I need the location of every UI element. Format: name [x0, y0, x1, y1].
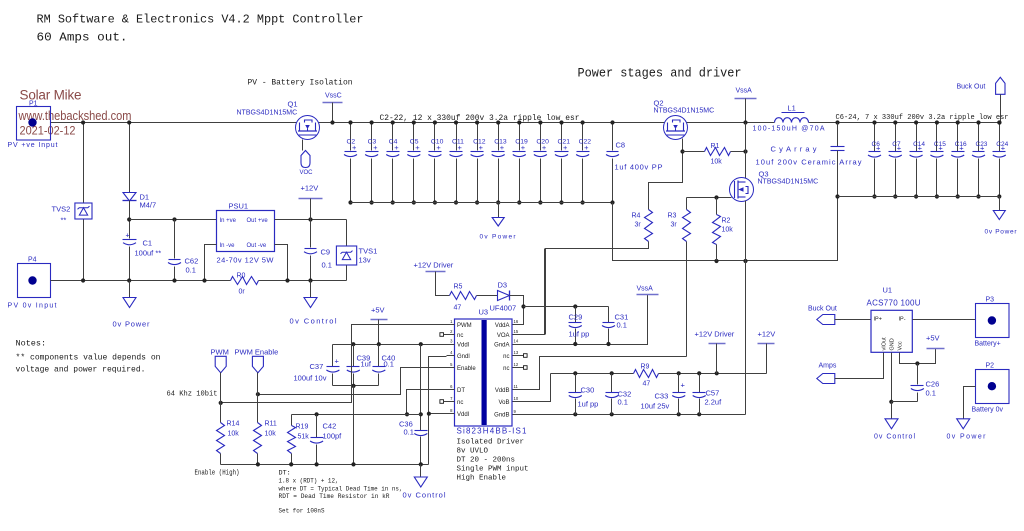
svg-text:PV 0v Input: PV 0v Input — [8, 303, 57, 310]
svg-text:** components value depends on: ** components value depends on — [16, 353, 161, 363]
svg-text:51k: 51k — [298, 434, 310, 441]
svg-text:47: 47 — [454, 305, 462, 312]
svg-text:1uf pp: 1uf pp — [569, 330, 590, 339]
svg-text:47: 47 — [643, 381, 651, 388]
svg-text:C21: C21 — [558, 139, 571, 146]
svg-text:VssA: VssA — [736, 88, 753, 95]
svg-text:C12: C12 — [473, 139, 486, 146]
svg-text:3r: 3r — [671, 222, 678, 229]
svg-text:C19: C19 — [515, 139, 528, 146]
svg-text:C1: C1 — [143, 239, 153, 248]
svg-text:15: 15 — [514, 329, 519, 334]
svg-text:C33: C33 — [655, 392, 669, 401]
svg-text:+: + — [126, 231, 131, 240]
svg-text:Enable: Enable — [457, 366, 476, 372]
svg-text:R5: R5 — [454, 284, 463, 291]
svg-text:PWM Enable: PWM Enable — [235, 348, 279, 357]
svg-text:nc: nc — [503, 366, 509, 372]
svg-text:R2: R2 — [722, 218, 731, 225]
svg-text:C16: C16 — [955, 141, 967, 148]
svg-text:Q2: Q2 — [654, 99, 664, 108]
svg-text:0.1: 0.1 — [618, 398, 628, 407]
svg-text:GndA: GndA — [494, 342, 509, 348]
svg-text:DT: DT — [457, 388, 465, 394]
svg-text:+12V: +12V — [301, 184, 319, 193]
svg-text:Out +ve: Out +ve — [247, 218, 269, 224]
svg-text:Single PWM input: Single PWM input — [457, 466, 529, 474]
svg-text:C42: C42 — [323, 422, 337, 431]
svg-text:PV - Battery Isolation: PV - Battery Isolation — [248, 79, 353, 88]
svg-text:C14: C14 — [913, 141, 925, 148]
svg-text:C5: C5 — [410, 139, 419, 146]
svg-text:Buck Out: Buck Out — [808, 306, 837, 313]
svg-text:0.1: 0.1 — [404, 428, 414, 437]
svg-text:C26: C26 — [926, 380, 940, 389]
svg-text:0v Control: 0v Control — [874, 434, 915, 441]
svg-text:P1: P1 — [29, 101, 38, 108]
svg-text:0.1: 0.1 — [384, 360, 394, 369]
svg-text:Notes:: Notes: — [16, 339, 47, 349]
svg-text:2021-02-12: 2021-02-12 — [20, 124, 76, 138]
svg-text:+12V Driver: +12V Driver — [695, 330, 735, 339]
svg-text:10k: 10k — [228, 431, 240, 438]
svg-text:nc: nc — [457, 400, 463, 406]
svg-text:In +ve: In +ve — [220, 218, 237, 224]
svg-text:VssA: VssA — [637, 286, 654, 293]
svg-text:ACS770 100U: ACS770 100U — [867, 299, 921, 308]
svg-text:PSU1: PSU1 — [229, 202, 249, 211]
svg-text:PWM: PWM — [211, 348, 229, 357]
svg-text:+12V: +12V — [758, 330, 776, 339]
svg-text:C23: C23 — [976, 141, 988, 148]
svg-text:C13: C13 — [494, 139, 507, 146]
svg-text:L1: L1 — [788, 104, 796, 113]
svg-text:C9: C9 — [321, 248, 331, 257]
svg-text:14: 14 — [514, 339, 519, 344]
svg-text:C6-24, 7 x 330uf 200v 3.2a rip: C6-24, 7 x 330uf 200v 3.2a ripple low es… — [836, 114, 1009, 122]
svg-text:10: 10 — [514, 396, 519, 401]
svg-text:Out -ve: Out -ve — [247, 243, 267, 249]
svg-text:0v Power: 0v Power — [113, 320, 151, 329]
svg-text:100uf **: 100uf ** — [135, 249, 162, 258]
svg-text:R4: R4 — [632, 213, 641, 220]
svg-text:VddA: VddA — [495, 323, 510, 329]
svg-text:DT 20 - 200ns: DT 20 - 200ns — [457, 457, 516, 465]
svg-text:+: + — [335, 357, 340, 366]
svg-text:C57: C57 — [706, 389, 720, 398]
svg-text:PV +ve Input: PV +ve Input — [8, 142, 58, 149]
svg-text:NTBGS4D1N15MC: NTBGS4D1N15MC — [654, 108, 715, 115]
svg-text:Vddl: Vddl — [457, 412, 469, 418]
svg-text:GndB: GndB — [494, 413, 509, 419]
svg-text:RDT = Dead Time Resistor in kR: RDT = Dead Time Resistor in kR — [279, 493, 390, 501]
svg-text:+5V: +5V — [926, 334, 940, 343]
svg-text:C62: C62 — [185, 257, 199, 266]
svg-text:U3: U3 — [479, 308, 489, 317]
svg-text:100-150uH @70A: 100-150uH @70A — [753, 126, 825, 133]
svg-text:P3: P3 — [986, 297, 995, 304]
svg-text:R9: R9 — [641, 364, 650, 371]
svg-text:Buck Out: Buck Out — [957, 84, 986, 91]
svg-text:In -ve: In -ve — [220, 243, 236, 249]
svg-text:Battery 0v: Battery 0v — [972, 407, 1004, 414]
svg-text:PWM: PWM — [457, 323, 472, 329]
svg-text:TVS1: TVS1 — [359, 247, 378, 256]
svg-text:IP+: IP+ — [874, 317, 882, 323]
svg-text:voltage and power required.: voltage and power required. — [16, 365, 146, 375]
svg-text:0.1: 0.1 — [322, 261, 332, 270]
svg-text:1uf: 1uf — [361, 360, 372, 369]
svg-text:nc: nc — [457, 333, 463, 339]
svg-text:High Enable: High Enable — [457, 475, 507, 483]
svg-text:Enable (High): Enable (High) — [195, 470, 240, 478]
svg-text:VoB: VoB — [498, 400, 509, 406]
svg-text:10k: 10k — [711, 159, 723, 166]
svg-text:+12V Driver: +12V Driver — [414, 261, 454, 270]
svg-text:D3: D3 — [498, 281, 508, 290]
svg-text:12: 12 — [514, 362, 519, 367]
svg-text:8v UVLO: 8v UVLO — [457, 448, 489, 456]
svg-text:C15: C15 — [934, 141, 946, 148]
svg-text:VddB: VddB — [495, 388, 510, 394]
svg-text:C3: C3 — [368, 139, 377, 146]
svg-text:Battery+: Battery+ — [975, 341, 1001, 348]
svg-text:16: 16 — [514, 319, 519, 324]
svg-text:VssC: VssC — [325, 93, 342, 100]
svg-text:10uf 200v Ceramic Array: 10uf 200v Ceramic Array — [756, 158, 862, 167]
svg-text:nc: nc — [503, 354, 509, 360]
svg-text:TVS2: TVS2 — [52, 205, 71, 214]
svg-text:Vcc: Vcc — [898, 341, 904, 350]
svg-text:0.1: 0.1 — [186, 266, 196, 275]
svg-text:13v: 13v — [359, 256, 371, 265]
svg-text:C2-22, 12 x 330uf 200v 3.2a ri: C2-22, 12 x 330uf 200v 3.2a ripple low e… — [380, 114, 580, 123]
svg-text:C8: C8 — [616, 141, 626, 150]
svg-text:10k: 10k — [722, 227, 734, 234]
svg-text:P4: P4 — [28, 257, 37, 264]
svg-text:VOA: VOA — [497, 333, 510, 339]
svg-text:11: 11 — [514, 384, 519, 389]
svg-text:13: 13 — [514, 350, 519, 355]
svg-text:0v Control: 0v Control — [290, 317, 337, 326]
svg-text:24-70v 12V 5W: 24-70v 12V 5W — [217, 256, 275, 265]
svg-text:C24: C24 — [996, 141, 1008, 148]
svg-text:Set for 100nS: Set for 100nS — [279, 508, 325, 516]
svg-text:1.8 x (RDT) + 12,: 1.8 x (RDT) + 12, — [279, 478, 339, 486]
svg-text:Vddl: Vddl — [457, 343, 469, 349]
svg-text:64 Khz 10bit: 64 Khz 10bit — [167, 391, 218, 399]
svg-text:Power stages and driver: Power stages and driver — [578, 67, 742, 81]
svg-text:UF4007: UF4007 — [490, 304, 517, 313]
svg-text:R3: R3 — [668, 213, 677, 220]
svg-text:R19: R19 — [296, 424, 309, 431]
svg-text:C30: C30 — [581, 386, 595, 395]
svg-text:C11: C11 — [452, 139, 464, 146]
svg-text:Si823H4BB-IS1: Si823H4BB-IS1 — [457, 427, 528, 436]
svg-text:0v Power: 0v Power — [480, 234, 517, 241]
svg-text:2.2uf: 2.2uf — [705, 398, 723, 407]
svg-text:Q3: Q3 — [759, 170, 769, 179]
svg-text:R0: R0 — [237, 273, 246, 280]
svg-text:C6: C6 — [872, 141, 881, 148]
svg-text:1uf 400v PP: 1uf 400v PP — [615, 163, 663, 172]
svg-text:R1: R1 — [711, 143, 720, 150]
svg-text:Gndl: Gndl — [457, 354, 470, 360]
svg-text:vIOut: vIOut — [882, 337, 888, 351]
svg-text:VOC: VOC — [300, 170, 314, 176]
svg-text:U1: U1 — [883, 286, 893, 295]
svg-text:3r: 3r — [635, 222, 642, 229]
svg-text:0v Control: 0v Control — [403, 491, 446, 500]
svg-text:C7: C7 — [892, 141, 901, 148]
svg-text:+: + — [681, 381, 686, 390]
svg-text:100pf: 100pf — [323, 432, 343, 441]
svg-text:M4/7: M4/7 — [140, 201, 157, 210]
svg-text:NTBGS4D1N15MC: NTBGS4D1N15MC — [758, 179, 819, 186]
svg-text:C22: C22 — [579, 139, 592, 146]
svg-text:C37: C37 — [310, 362, 324, 371]
svg-text:0.1: 0.1 — [926, 389, 936, 398]
svg-text:100uf 10v: 100uf 10v — [294, 374, 327, 383]
svg-text:Isolated Driver: Isolated Driver — [457, 439, 525, 447]
svg-text:C20: C20 — [536, 139, 549, 146]
svg-text:60 Amps out.: 60 Amps out. — [37, 31, 128, 45]
svg-text:0v Power: 0v Power — [985, 229, 1018, 236]
svg-text:RM Software & Electronics V4.: RM Software & Electronics V4.2 Mppt Cont… — [37, 13, 364, 27]
svg-text:0v Power: 0v Power — [947, 434, 987, 441]
svg-text:0r: 0r — [239, 289, 246, 296]
svg-text:IP-: IP- — [899, 317, 906, 323]
svg-text:R14: R14 — [227, 421, 240, 428]
svg-text:C10: C10 — [431, 139, 444, 146]
svg-text:0.1: 0.1 — [617, 321, 627, 330]
svg-text:C29: C29 — [569, 313, 583, 322]
svg-text:Q1: Q1 — [288, 100, 298, 109]
svg-text:NTBGS4D1N15MC: NTBGS4D1N15MC — [237, 110, 298, 117]
svg-text:C4: C4 — [389, 139, 398, 146]
svg-text:DT:: DT: — [279, 470, 291, 478]
svg-text:Amps: Amps — [819, 363, 837, 370]
svg-text:1uf pp: 1uf pp — [578, 400, 599, 409]
svg-text:10k: 10k — [265, 431, 277, 438]
svg-text:GND: GND — [890, 338, 896, 350]
svg-text:R11: R11 — [265, 421, 277, 428]
svg-text:10uf 25v: 10uf 25v — [641, 402, 670, 411]
svg-text:P2: P2 — [986, 363, 995, 370]
svg-text:**: ** — [61, 216, 67, 225]
svg-text:C2: C2 — [347, 139, 356, 146]
svg-text:+5V: +5V — [371, 306, 385, 315]
